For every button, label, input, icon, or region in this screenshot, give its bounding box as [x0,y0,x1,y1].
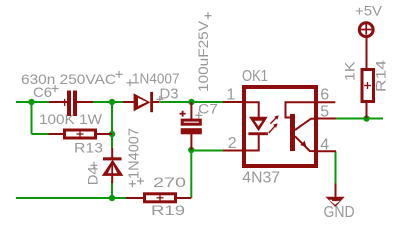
svg-text:1K: 1K [341,61,357,81]
wire [335,151,337,183]
svg-text:GND: GND [324,204,355,221]
wire [111,102,113,134]
OK1 pin 2 [223,150,244,152]
svg-text:+5V: +5V [355,3,382,18]
svg-text:R19: R19 [151,202,185,218]
OK1 light arrows [269,115,279,133]
svg-text:4: 4 [320,137,329,154]
resistor R19 [126,194,191,202]
svg-text:R14: R14 [372,60,388,92]
svg-text:270: 270 [153,174,186,190]
wire [160,101,223,103]
OK1 pin 4 (emitter stub) [316,150,336,152]
svg-text:C7: C7 [198,101,218,117]
svg-text:D4: D4 [85,166,101,185]
diode D3 [123,92,160,112]
wire [191,150,223,152]
diode D4 [102,148,124,183]
node junction R14-pin5 [363,115,369,121]
svg-text:100K 1W: 100K 1W [39,111,103,127]
wire [111,181,113,198]
svg-text:4N37: 4N37 [242,170,280,187]
wire [111,134,113,149]
text origin cross above D4 name [91,162,98,169]
wire [336,118,383,120]
svg-text:100uF25V: 100uF25V [195,20,211,92]
OK1 pin 6 (base stub) [316,101,335,103]
wire [16,197,126,199]
svg-text:R13: R13 [74,140,103,156]
text origin cross above 100uF25V [205,12,212,19]
wire [31,101,33,134]
node junction D4 top wire [109,99,115,105]
svg-text:1N4007: 1N4007 [126,128,142,179]
node junction D4 bottom [109,195,115,201]
OK1 pin 5 (collector stub) [316,118,336,120]
wire [32,133,49,135]
svg-text:5: 5 [320,103,329,120]
text origin cross before 1N4007 [127,79,134,86]
text origin cross at C7 [195,112,202,119]
wire [93,101,123,103]
resistor R13 [49,130,113,138]
node junction C7 top [188,99,194,105]
text origin cross before 270 [137,178,144,185]
ground symbol GND [326,184,345,208]
svg-text:OK1: OK1 [242,68,268,85]
capacitor C6 [49,91,93,117]
wire [16,101,49,103]
OK1 internal phototransistor Q [286,102,317,151]
+5V supply symbol [359,23,373,37]
node junction C7 bottom [188,147,194,153]
node junction R13-D4 [109,131,115,137]
node junction C6-R13 left [28,99,34,105]
svg-text:1: 1 [226,86,235,103]
svg-text:6: 6 [320,86,329,103]
resistor R14 [362,38,374,119]
svg-text:2: 2 [228,135,237,152]
text origin cross after C6 [52,85,59,92]
text origin cross at D3 [156,96,163,103]
OK1 internal LED (emitter diode) [246,102,268,150]
text origin cross below D4 value [129,180,136,187]
svg-text:C6: C6 [33,84,52,100]
text origin cross after VAC [116,71,123,78]
optocoupler OK1 box [244,87,316,166]
wire [190,150,192,198]
capacitor C7 [180,102,202,150]
OK1 pin 1 [223,101,244,103]
